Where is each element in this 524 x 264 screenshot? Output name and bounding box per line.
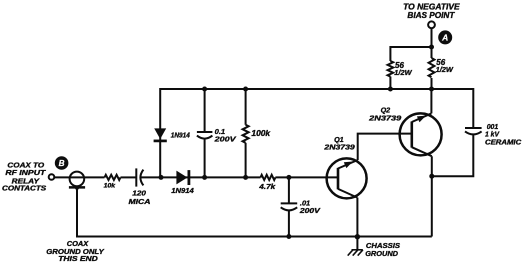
svg-text:10k: 10k [104, 183, 116, 190]
svg-text:4.7k: 4.7k [258, 184, 276, 191]
svg-text:CERAMIC: CERAMIC [485, 140, 522, 147]
svg-text:1N914: 1N914 [171, 132, 190, 139]
svg-text:2N3739: 2N3739 [368, 114, 401, 123]
junction main/100k [243, 175, 248, 180]
terminal RF input [49, 174, 55, 180]
svg-text:THIS END: THIS END [58, 256, 98, 263]
terminal to negative bias point [428, 21, 435, 28]
wire C1 to Q1 base [141, 176, 261, 178]
label COAX GROUND ONLY THIS END [46, 241, 105, 263]
capacitor C1 120 MICA [129, 168, 151, 206]
junction main/.01 [286, 175, 291, 180]
svg-text:1N914: 1N914 [171, 188, 194, 195]
node B badge [55, 156, 69, 170]
junction bus 0.1 cap [202, 87, 207, 92]
svg-text:CONTACTS: CONTACTS [2, 184, 46, 193]
capacitor C4 .001 1kV ceramic [432, 124, 522, 176]
transistor Q2 2N3739 [368, 106, 442, 157]
svg-text:1/2W: 1/2W [394, 68, 412, 77]
junction bus 100k [243, 87, 248, 92]
wire Q1 emitter up and over to Q2 base [358, 134, 412, 160]
svg-text:GROUND: GROUND [365, 249, 398, 258]
svg-text:B: B [59, 159, 65, 168]
svg-text:A: A [441, 33, 448, 43]
wire 4.7k to Q1 [275, 176, 338, 178]
wire Q2 emitter to bus [430, 89, 432, 113]
wire top bus [160, 89, 473, 177]
junction ground/Q1 collector [355, 234, 360, 239]
svg-text:200V: 200V [213, 135, 236, 144]
coax jack J1 [69, 172, 85, 190]
junction bus right 56 [429, 87, 434, 92]
transistor Q1 2N3739 [323, 135, 366, 198]
resistor R5 4.7k [258, 175, 276, 191]
wire to C1 [121, 176, 137, 178]
svg-text:COAX: COAX [67, 241, 90, 248]
svg-text:BIAS POINT: BIAS POINT [407, 10, 455, 20]
resistor R1 56 1/2W (left) [388, 61, 413, 89]
label CHASSIS GROUND [365, 241, 400, 258]
svg-text:200V: 200V [299, 206, 321, 215]
label COAX TO RF INPUT RELAY CONTACTS [2, 161, 46, 193]
wire top-right horizontal to resistors [390, 47, 431, 61]
junction Q2 collector / C4 [429, 174, 434, 179]
junction main/0.1 [202, 175, 207, 180]
junction main/diode branch [159, 175, 164, 180]
svg-text:MICA: MICA [129, 197, 151, 206]
label TO NEGATIVE BIAS POINT [403, 1, 460, 19]
capacitor C2 0.1 200V [197, 89, 237, 177]
resistor R2 56 1/2W (right) [429, 47, 454, 89]
wire terminal A stem [431, 28, 433, 47]
wire coax ground stem and ground bus [77, 187, 432, 236]
junction at A stem [429, 45, 434, 50]
chassis ground symbol [348, 237, 363, 256]
resistor R3 100k [243, 89, 271, 177]
diode CR2 1N914 (series) [171, 170, 194, 195]
capacitor C3 .01 200V [281, 177, 321, 236]
node A badge [438, 30, 452, 44]
svg-text:2N3739: 2N3739 [323, 143, 355, 152]
wire Q1 collector down [356, 198, 358, 237]
diode CR1 1N914 (vertical) [154, 128, 190, 141]
svg-text:100k: 100k [251, 129, 270, 138]
junction ground/.01 [286, 234, 291, 239]
resistor R4 10k [104, 175, 121, 190]
svg-text:1/2W: 1/2W [436, 65, 454, 74]
svg-text:001: 001 [487, 124, 499, 131]
svg-text:1 kV: 1 kV [485, 131, 500, 138]
wire Q2 collector down to ground bus [431, 156, 433, 236]
junction bus left 56 [388, 87, 393, 92]
wire main signal [54, 176, 104, 178]
